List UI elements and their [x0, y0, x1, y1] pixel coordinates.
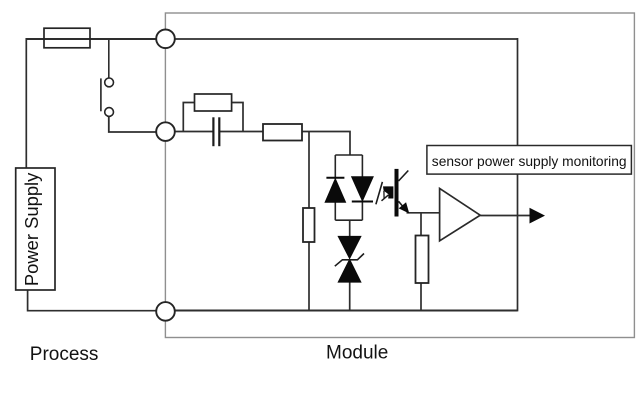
TVS bidirectional zener: [335, 237, 364, 283]
wire: middle rail terminal 2 to capacitor: [175, 131, 213, 133]
amplifier U1: [440, 188, 481, 240]
wire: TVS to bottom rail: [349, 282, 351, 312]
wire: capacitor to series resistor: [220, 131, 263, 133]
optocoupler light arrows: [376, 182, 394, 204]
wire: switch drop from top rail: [108, 39, 110, 78]
terminal 3: [156, 302, 175, 321]
wire: left vertical down to power supply: [25, 38, 27, 168]
svg-text:Power Supply: Power Supply: [21, 172, 42, 286]
wire: shunt branch down to resistor R3: [308, 132, 310, 209]
capacitor C1: [213, 117, 219, 146]
wire: RC bypass loop: [183, 103, 194, 133]
wire: emitter node to amplifier input: [407, 212, 440, 214]
resistor R3 (shunt): [303, 208, 315, 242]
module enclosure box: [165, 13, 634, 338]
fuse F1: [44, 28, 90, 48]
power supply box: [16, 168, 55, 290]
sensor power supply monitoring box: [427, 146, 632, 175]
wire: monitor drop upper segment: [517, 38, 519, 146]
wire: RC bypass loop right: [232, 103, 243, 133]
switch S1: [101, 78, 114, 116]
wire: top rail terminal 1 to monitor drop: [175, 38, 518, 40]
phototransistor Q1: [395, 169, 409, 217]
resistor R4: [416, 236, 429, 284]
svg-text:sensor power supply monitoring: sensor power supply monitoring: [432, 154, 627, 169]
wire: diode box to TVS: [349, 220, 351, 237]
wire: monitor drop lower segment: [517, 174, 519, 311]
diode D2 (pointing down): [352, 177, 373, 202]
wire: top feed from left edge to fuse to terminal 1: [26, 38, 156, 40]
resistor R2 (series): [263, 124, 302, 141]
wire: emitter node down to resistor R4: [420, 213, 422, 236]
terminal 1: [156, 30, 175, 49]
wire: switch lower contact to terminal 2: [109, 116, 156, 132]
output arrowhead: [530, 208, 546, 224]
wire: resistor R3 to bottom rail: [308, 242, 310, 311]
wire: resistor R4 to bottom rail: [420, 283, 422, 311]
diode D1 (pointing up): [325, 178, 345, 202]
terminal 2: [156, 122, 175, 141]
wire: power supply bottom to terminal 3: [28, 290, 156, 311]
wire: amplifier output: [480, 215, 531, 217]
antiparallel diode pair frame: [335, 155, 362, 220]
svg-text:Process: Process: [30, 344, 99, 365]
wire: series resistor to diode branch corner: [302, 132, 350, 156]
resistor R1 (RC bypass): [195, 94, 232, 111]
wire: bottom rail terminal 3 to monitor drop: [166, 310, 518, 312]
svg-text:Module: Module: [326, 343, 388, 364]
